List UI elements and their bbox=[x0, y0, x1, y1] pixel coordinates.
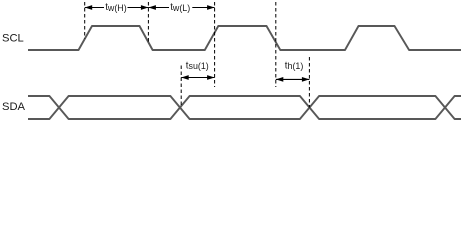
svg-text:SDA: SDA bbox=[2, 101, 26, 113]
svg-text:tw(H): tw(H) bbox=[105, 2, 127, 13]
svg-text:tw(L): tw(L) bbox=[170, 2, 190, 13]
svg-text:tsu(1): tsu(1) bbox=[186, 60, 209, 71]
svg-text:th(1): th(1) bbox=[285, 60, 304, 71]
svg-text:SCL: SCL bbox=[2, 33, 24, 45]
